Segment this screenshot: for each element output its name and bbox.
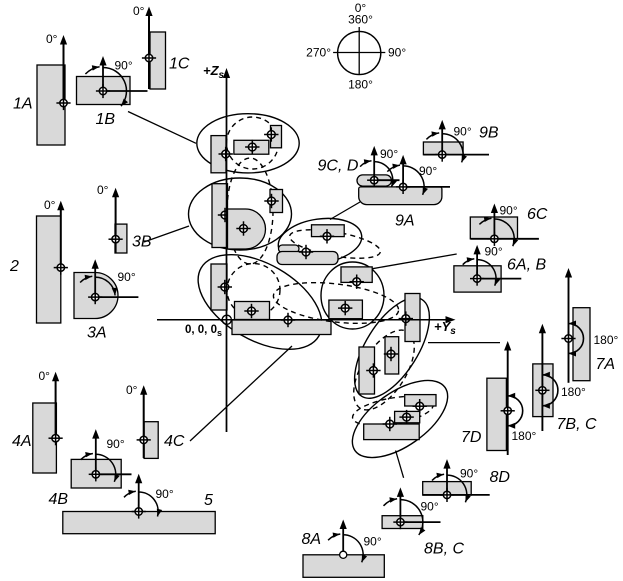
sensor 7D arrow xyxy=(504,341,511,455)
sensor 6C arrow xyxy=(491,204,498,239)
sensor 2 rect xyxy=(37,216,61,323)
body rect thigh-mid xyxy=(385,337,399,374)
axis +Ys line overlay xyxy=(157,319,448,321)
body marker belt-bar xyxy=(299,245,313,259)
sensor 1A marker xyxy=(56,96,70,110)
sensor 8BC horizontal line xyxy=(400,521,440,523)
body marker thigh-mid xyxy=(384,347,398,361)
body rect thigh-left xyxy=(359,347,375,394)
svg-text:9C, D: 9C, D xyxy=(318,158,359,175)
svg-text:6A, B: 6A, B xyxy=(507,257,546,274)
svg-text:90°: 90° xyxy=(500,204,518,218)
svg-text:90°: 90° xyxy=(421,500,439,514)
pointer line body to 9A xyxy=(330,202,360,220)
sensor 7D marker xyxy=(501,404,515,418)
sensor 8BC rotation arc xyxy=(384,497,426,535)
body rect shin-top xyxy=(405,395,436,406)
sensor 4B marker xyxy=(89,467,103,481)
svg-text:180°: 180° xyxy=(512,429,537,443)
body dashed circle chest xyxy=(227,117,279,169)
sensor 6C horizontal line xyxy=(471,238,539,240)
body dashed circle hip xyxy=(227,264,280,317)
sensor 8D horizontal line xyxy=(423,494,490,496)
sensor 2 arrow 0deg xyxy=(57,201,64,271)
pointer line body to 6AB xyxy=(372,254,457,269)
sensor 9A rounded rect xyxy=(359,187,442,205)
compass circle xyxy=(338,31,381,74)
sensor 8D arrow xyxy=(443,459,450,495)
body dashed ellipse belt xyxy=(288,224,383,264)
svg-text:90°: 90° xyxy=(454,125,472,139)
pointer line body to 4C xyxy=(190,346,292,441)
sensor 6AB marker xyxy=(470,272,484,286)
body marker chest-left xyxy=(219,147,233,161)
body marker shin-bottom xyxy=(383,417,397,431)
sensor 3B arrow 0deg xyxy=(112,188,119,253)
body rect thigh-right xyxy=(405,294,420,342)
body marker thigh-right xyxy=(399,311,413,325)
sensor 9CD horizontal line xyxy=(374,179,399,181)
pointer line 3B to body xyxy=(144,226,189,242)
svg-text:0°: 0° xyxy=(46,32,58,46)
body rect chest-left xyxy=(211,136,226,173)
sensor 1B horizontal line xyxy=(103,90,148,92)
body rect waist-right xyxy=(270,190,283,213)
body ellipse chest xyxy=(197,114,299,173)
svg-text:0°: 0° xyxy=(39,369,51,383)
sensor 7A rect xyxy=(573,308,590,381)
sensor 8A marker xyxy=(340,551,347,558)
sensor 4C arrow 0deg xyxy=(140,385,147,458)
svg-text:180°: 180° xyxy=(594,333,619,347)
svg-text:90°: 90° xyxy=(485,245,503,259)
sensor 9A horizontal line xyxy=(403,186,450,188)
axis +Ys arrowhead xyxy=(446,316,456,323)
sensor 4A rect xyxy=(33,403,57,473)
body marker pocket-top xyxy=(350,275,364,289)
sensor 7BC arrow xyxy=(539,324,546,431)
body marker shin-top xyxy=(413,399,427,413)
sensor 1B rect xyxy=(77,77,131,105)
sensor 8A arrow xyxy=(340,520,347,555)
body dashed ellipse shin xyxy=(350,391,435,431)
sensor 9A arrow xyxy=(400,155,407,187)
sensor 6AB rect xyxy=(454,266,501,292)
body rect hip-left xyxy=(211,264,227,310)
sensor 7A arrow xyxy=(565,268,572,383)
sensor 9B horizontal line xyxy=(423,154,489,156)
svg-text:90°: 90° xyxy=(115,59,133,73)
body rect chest-mid xyxy=(234,140,269,154)
body rect waist-left xyxy=(212,184,228,248)
body ellipse shin xyxy=(339,365,460,472)
body marker waist-left xyxy=(218,208,232,222)
sensor 5 arrow xyxy=(135,474,142,512)
sensor 3A horizontal line xyxy=(95,296,138,298)
body marker waist-mid xyxy=(236,221,250,235)
axis +Zs vertical line xyxy=(226,75,228,432)
pointer line body to 8 xyxy=(396,451,404,478)
axis +Zs arrowhead xyxy=(223,68,230,78)
body marker chest-right xyxy=(264,127,278,141)
svg-text:7A: 7A xyxy=(596,356,616,373)
body marker waist-right xyxy=(264,194,278,208)
body marker shin-mid xyxy=(399,410,413,424)
svg-text:0°: 0° xyxy=(133,4,145,18)
body bar shin-bottom xyxy=(364,424,420,440)
svg-text:8A: 8A xyxy=(302,531,322,548)
svg-text:180°: 180° xyxy=(348,78,373,92)
sensor 7D rotation arc 180 xyxy=(508,393,523,429)
svg-text:3A: 3A xyxy=(87,325,107,342)
pointer line body to 7D xyxy=(428,342,500,344)
sensor 6C marker xyxy=(487,232,501,246)
sensor 3A marker xyxy=(88,290,102,304)
sensor 5 rotation arc xyxy=(124,490,162,517)
sensor 7BC marker xyxy=(535,383,549,397)
sensor 3B rect xyxy=(115,224,127,253)
sensor 9B marker xyxy=(435,148,449,162)
svg-text:90°: 90° xyxy=(156,487,174,501)
sensor 8A rotation arc xyxy=(328,533,367,563)
sensor 2 marker xyxy=(54,261,68,275)
sensor 5 bar xyxy=(63,512,215,534)
body rect pocket-top xyxy=(341,267,372,283)
svg-text:360°: 360° xyxy=(348,13,373,27)
svg-text:0°: 0° xyxy=(97,183,109,197)
sensor 4C marker xyxy=(137,433,151,447)
body rect pocket-bottom xyxy=(329,300,363,319)
svg-text:7D: 7D xyxy=(461,429,482,446)
body ellipse belt xyxy=(275,213,364,268)
sensor 1C arrow 0deg xyxy=(145,7,152,90)
sensor 7A marker xyxy=(561,331,575,345)
svg-text:90°: 90° xyxy=(364,535,382,549)
body pill belt xyxy=(279,245,300,253)
sensor 9B rotation arc xyxy=(426,131,467,162)
axis +Zs line overlay xyxy=(226,75,228,432)
sensor 1B rotation arc xyxy=(85,65,128,106)
sensor 9CD arrow xyxy=(371,146,378,180)
sensor 8A bar xyxy=(303,555,384,578)
svg-text:90°: 90° xyxy=(118,270,136,284)
compass vertical line xyxy=(358,27,360,75)
svg-text:6C: 6C xyxy=(527,206,548,223)
sensor 4B rotation arc xyxy=(81,452,120,482)
pointer line 1B to body xyxy=(128,112,196,144)
svg-text:90°: 90° xyxy=(460,467,478,481)
sensor 8BC marker xyxy=(393,515,407,529)
svg-text:0, 0, 0s: 0, 0, 0s xyxy=(185,324,222,338)
sensor 4B arrow xyxy=(92,429,99,474)
body ellipse hip xyxy=(182,235,338,369)
body marker belt-right xyxy=(320,229,334,243)
svg-text:4C: 4C xyxy=(164,433,185,450)
sensor 8D marker xyxy=(440,488,454,502)
svg-text:270°: 270° xyxy=(306,46,331,60)
body marker hip-mid xyxy=(244,304,258,318)
sensor 3A arrow xyxy=(92,259,99,297)
sensor 7BC rotation arc 180 xyxy=(542,372,558,409)
sensor 3A rotation arc xyxy=(80,275,117,296)
body rect belt-right xyxy=(312,225,345,237)
svg-text:8B, C: 8B, C xyxy=(424,541,464,558)
body dashed ellipse thigh xyxy=(341,320,426,420)
svg-text:90°: 90° xyxy=(107,437,125,451)
sensor 9B arrow xyxy=(439,120,446,155)
body bar hip-bottom xyxy=(232,320,331,335)
svg-text:1B: 1B xyxy=(96,111,116,128)
svg-text:90°: 90° xyxy=(419,164,437,178)
sensor 4B horizontal line xyxy=(96,473,132,475)
svg-text:90°: 90° xyxy=(380,147,398,161)
body dashed wide ellipse pocket xyxy=(271,276,401,329)
sensor 5 marker xyxy=(132,504,146,518)
body dashed tall ellipse xyxy=(227,158,273,264)
sensor 1A rect xyxy=(37,65,65,145)
sensor 8D rotation arc xyxy=(432,473,471,503)
body rect shin-mid xyxy=(395,411,420,422)
sensor 4A arrow 0deg xyxy=(52,372,59,442)
origin marker circle xyxy=(222,315,231,324)
body marker hip-left xyxy=(218,280,232,294)
sensor 6C rect xyxy=(470,217,517,239)
body marker chest-mid xyxy=(245,140,259,154)
svg-text:4B: 4B xyxy=(49,491,69,508)
body rect hip-mid xyxy=(235,302,270,320)
sensor 7A rotation arc 180 xyxy=(569,321,584,357)
svg-text:4A: 4A xyxy=(12,433,32,450)
svg-text:0°: 0° xyxy=(126,383,138,397)
svg-text:7B, C: 7B, C xyxy=(557,416,597,433)
sensor 1C rect xyxy=(150,32,166,89)
compass horizontal line xyxy=(333,52,385,54)
sensor 4A marker xyxy=(49,431,63,445)
body ellipse thigh xyxy=(340,286,445,410)
body shape waist-mid xyxy=(228,209,266,249)
svg-text:0°: 0° xyxy=(44,198,56,212)
axis +Ys horizontal line xyxy=(157,319,448,321)
body marker hip-bottom xyxy=(281,313,295,327)
body bar belt xyxy=(277,252,338,265)
sensor 6C rotation arc xyxy=(479,217,518,247)
sensor 1C marker xyxy=(142,51,156,65)
body marker pocket-bottom xyxy=(338,301,352,315)
sensor 7D rect xyxy=(487,378,507,450)
sensor 9CD marker xyxy=(367,173,381,187)
svg-text:3B: 3B xyxy=(132,234,152,251)
sensor 1A arrow 0deg xyxy=(60,35,67,106)
sensor 9B rect xyxy=(423,142,463,155)
svg-text:5: 5 xyxy=(204,492,213,509)
sensor 8D rect xyxy=(423,482,472,496)
sensor 8BC rect xyxy=(382,516,423,529)
body marker thigh-left xyxy=(366,363,380,377)
sensor 8BC arrow xyxy=(397,487,404,522)
svg-text:9A: 9A xyxy=(395,213,415,230)
sensor 1B marker xyxy=(96,84,110,98)
body ellipse waist xyxy=(189,178,292,250)
svg-text:9B: 9B xyxy=(479,125,499,142)
sensor 9A marker xyxy=(396,180,410,194)
body rect chest-right xyxy=(271,126,282,148)
svg-text:8D: 8D xyxy=(490,469,511,486)
svg-text:1A: 1A xyxy=(13,96,33,113)
sensor 4C rect xyxy=(144,422,158,459)
sensor 4B rect xyxy=(71,459,121,488)
svg-text:1C: 1C xyxy=(169,56,190,73)
svg-text:2: 2 xyxy=(9,258,19,275)
sensor 6AB arrow xyxy=(474,245,481,279)
svg-text:90°: 90° xyxy=(388,46,406,60)
sensor 3A shape xyxy=(74,273,118,319)
sensor 9CD pill xyxy=(357,175,392,186)
sensor 9A rotation arc xyxy=(387,164,428,195)
sensor 7BC rect xyxy=(533,364,553,417)
body ellipse pocket xyxy=(321,262,384,329)
sensor 9CD rotation arc xyxy=(360,159,397,187)
sensor 1B arrow xyxy=(99,56,106,91)
sensor 3B marker xyxy=(109,232,123,246)
svg-text:180°: 180° xyxy=(561,385,586,399)
sensor 6AB horizontal line xyxy=(477,278,521,280)
sensor 6AB rotation arc xyxy=(463,257,500,285)
